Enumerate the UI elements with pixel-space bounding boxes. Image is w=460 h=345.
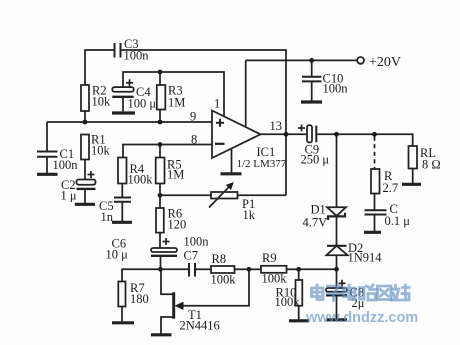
wire P1 to feedback column <box>238 194 287 196</box>
C1 label <box>53 147 79 172</box>
pin 13 label <box>270 119 283 133</box>
wire C10 top lead <box>311 60 313 76</box>
R2 label <box>92 84 112 109</box>
op-amp minus input symbol <box>215 143 225 145</box>
wire C to ground <box>374 215 376 232</box>
ground C8 <box>327 318 348 321</box>
IC1 label <box>237 145 287 170</box>
svg-text:1: 1 <box>214 97 220 111</box>
node R5 top junction <box>158 142 163 147</box>
svg-text:9: 9 <box>190 110 196 124</box>
svg-text:100k: 100k <box>275 295 301 309</box>
C5 label <box>99 199 114 224</box>
op-amp plus input symbol <box>216 119 224 127</box>
P1 label <box>242 197 256 222</box>
C8 label <box>350 286 365 311</box>
wire output pin 13 <box>261 133 307 135</box>
C6 plus sign <box>163 238 170 245</box>
+20V label <box>369 55 401 70</box>
capacitor C5 <box>114 198 131 202</box>
capacitor C1 <box>37 152 58 157</box>
C9 label <box>301 143 330 167</box>
wire op-amp ground pin <box>231 148 233 173</box>
ground C2 <box>75 203 95 206</box>
transistor T1 channel <box>172 292 175 319</box>
ground C <box>364 231 381 234</box>
wire R10 to ground <box>298 306 300 320</box>
node zobel dashed junction <box>372 132 377 137</box>
capacitor C7 <box>189 263 195 277</box>
wire node to R9 <box>249 268 261 270</box>
transistor T1 gate arrow <box>175 302 184 310</box>
node R10 top junction <box>296 267 301 272</box>
wire node right to C7 <box>161 268 189 270</box>
capacitor C6 electrolytic <box>151 248 177 256</box>
svg-text:100n: 100n <box>184 235 210 249</box>
wire R5 top lead <box>159 145 161 158</box>
resistor R8 <box>211 266 235 273</box>
svg-text:13: 13 <box>270 119 283 133</box>
svg-text:100n: 100n <box>53 158 79 172</box>
resistor R5 <box>156 158 165 184</box>
svg-text:10 μ: 10 μ <box>106 248 129 262</box>
svg-text:10k: 10k <box>92 95 112 109</box>
svg-text:0.1 μ: 0.1 μ <box>385 214 411 228</box>
capacitor C4 electrolytic <box>112 87 133 97</box>
wire D2 to bottom node <box>336 255 338 269</box>
C label <box>385 202 411 228</box>
svg-text:1k: 1k <box>243 208 256 222</box>
C10 label <box>323 72 349 96</box>
wire R10 node to D2/C8 node <box>299 268 337 270</box>
svg-text:D1: D1 <box>311 203 326 217</box>
svg-text:100k: 100k <box>211 273 237 287</box>
svg-text:R9: R9 <box>262 251 277 265</box>
capacitor C10 <box>302 77 322 82</box>
C4 label <box>128 85 157 111</box>
C7 labels <box>184 235 210 263</box>
wire inverting input line (pin 8) <box>123 145 212 158</box>
ground C10 <box>301 100 322 103</box>
svg-text:100n: 100n <box>323 82 349 96</box>
C8 plus sign <box>339 280 346 287</box>
wire C8 to ground <box>336 295 338 318</box>
wire C10 to ground <box>311 81 313 100</box>
node R3 bottom junction <box>158 120 163 125</box>
svg-text:1 μ: 1 μ <box>61 189 77 203</box>
pin 8 label <box>191 133 197 147</box>
wire R1 bottom to C2 <box>84 160 86 180</box>
pin 9 label <box>190 110 196 124</box>
wire feedback column down to P1 <box>285 134 287 195</box>
C6 label <box>106 237 129 262</box>
resistor R7 <box>118 282 125 307</box>
wire R6 bottom to C6 <box>159 233 161 248</box>
wire R3 bottom lead <box>159 110 161 123</box>
wire input line down to C1 <box>46 122 48 151</box>
capacitor C zobel <box>365 210 387 214</box>
wire feedback top line from R2 top to C3 <box>85 50 114 85</box>
D1 label <box>303 203 328 230</box>
ground T1 <box>151 333 172 336</box>
resistor R1 <box>81 135 89 160</box>
resistor R zobel <box>371 169 380 194</box>
node R5/R6/P1 junction <box>158 193 163 198</box>
capacitor C8 electrolytic <box>326 288 347 295</box>
svg-text:180: 180 <box>130 292 149 306</box>
ground RL <box>402 183 421 186</box>
svg-text:1N914: 1N914 <box>348 251 383 265</box>
svg-text:R8: R8 <box>212 252 227 266</box>
wire bias line from C4 top to pin 1 <box>123 72 224 116</box>
wire R4 bottom to C5 <box>121 184 123 197</box>
ground R7 <box>112 321 134 324</box>
wire RL to ground <box>412 169 414 184</box>
op-amp U1 triangle <box>212 111 261 159</box>
ground R10 <box>289 319 309 322</box>
svg-text:1/2 LM377: 1/2 LM377 <box>237 158 287 170</box>
svg-text:2N4416: 2N4416 <box>180 319 220 333</box>
resistor R4 <box>118 158 127 184</box>
R7 label <box>130 281 149 306</box>
wire op-amp power pin from supply <box>245 60 247 127</box>
svg-text:2.7: 2.7 <box>383 181 399 195</box>
node R8/R9/gate junction <box>247 267 252 272</box>
R4 label <box>128 162 154 187</box>
node output/feedback junction <box>284 132 289 137</box>
svg-text:IC1: IC1 <box>257 145 276 159</box>
wire feedback line C3 to output column <box>122 50 287 134</box>
wire C9 to RL corner <box>317 134 412 146</box>
wire dashed to zobel R <box>374 137 376 170</box>
svg-text:100 μ: 100 μ <box>128 97 157 111</box>
ground op-amp <box>221 172 242 175</box>
svg-text:1M: 1M <box>168 96 185 110</box>
svg-text:C7: C7 <box>184 249 199 263</box>
resistor R3 <box>157 85 166 110</box>
resistor R10 <box>296 269 303 305</box>
wire R to C <box>374 194 376 211</box>
C2 plus sign <box>88 171 95 178</box>
node C6/R7/C7/T1 junction <box>158 267 163 272</box>
svg-text:100k: 100k <box>262 272 288 286</box>
wire R5 bottom to node <box>159 184 161 196</box>
RL label <box>420 146 441 172</box>
svg-text:1M: 1M <box>167 168 184 182</box>
wire noninverting input line (pin 9) <box>47 121 212 123</box>
ground C4 <box>112 111 135 114</box>
svg-text:4.7V: 4.7V <box>303 216 328 230</box>
R6 label <box>168 207 187 232</box>
R3 label <box>168 84 185 110</box>
resistor RL <box>409 146 418 169</box>
C2 label <box>61 178 77 203</box>
node R2/R1 junction <box>83 120 88 125</box>
pin 1 label <box>214 97 220 111</box>
wire R7 to ground <box>121 307 123 322</box>
wire D1 to D2 <box>336 216 338 245</box>
svg-text:100k: 100k <box>128 173 154 187</box>
C3 value label <box>124 37 150 63</box>
node R3 top junction <box>158 70 163 75</box>
wire C2 to ground <box>84 189 86 203</box>
wire node to P1 <box>160 194 211 196</box>
svg-text:+20V: +20V <box>369 55 401 70</box>
C4 plus sign <box>126 79 133 86</box>
wire C7 to R8 <box>196 268 211 270</box>
wire R2 bottom to input line <box>84 111 86 122</box>
svg-text:8 Ω: 8 Ω <box>422 158 441 172</box>
wire C6 bottom to node <box>160 256 162 269</box>
wire node left to R7 <box>122 269 161 281</box>
wire C4 to ground <box>122 97 124 112</box>
wire T1 source <box>161 317 173 334</box>
watermark site name <box>312 285 410 301</box>
wire +20V supply line <box>246 59 358 61</box>
R5 label <box>167 158 184 182</box>
potentiometer P1 <box>209 182 238 208</box>
ground C1 <box>37 173 58 176</box>
wire C1 to ground <box>46 157 48 173</box>
svg-text:8: 8 <box>191 133 197 147</box>
ground C5 <box>112 221 132 224</box>
capacitor C3 <box>115 43 121 58</box>
diode D1 zener <box>327 207 346 220</box>
svg-text:250 μ: 250 μ <box>301 153 330 167</box>
diode D2 <box>326 246 347 255</box>
wire R8 to node <box>235 268 250 270</box>
resistor R2 <box>81 85 89 111</box>
resistor R6 <box>156 208 164 233</box>
wire D1 column down <box>336 134 338 207</box>
wire R3 top lead <box>159 72 161 85</box>
T1 label <box>180 308 220 333</box>
wire R6 top lead <box>159 195 161 208</box>
svg-text:120: 120 <box>168 218 187 232</box>
C9 plus sign <box>298 125 305 132</box>
R9 label <box>262 251 288 286</box>
capacitor C2 electrolytic <box>77 180 96 189</box>
R1 label <box>91 133 111 158</box>
R label <box>383 169 399 195</box>
svg-text:1n: 1n <box>101 210 114 224</box>
wire node to C8 <box>336 269 338 288</box>
terminal +20V <box>357 57 364 64</box>
capacitor C9 electrolytic <box>307 125 316 142</box>
wire T1 drain <box>161 269 173 294</box>
D2 label <box>348 241 383 265</box>
node D1 column junction <box>334 132 339 137</box>
svg-text:www.dndzz.com: www.dndzz.com <box>305 310 418 326</box>
node D2/C8 junction <box>334 267 339 272</box>
wire C5 to ground <box>121 202 123 221</box>
svg-text:10k: 10k <box>91 144 111 158</box>
wire gate feed down and left <box>183 269 249 306</box>
node C10 junction <box>309 58 314 63</box>
wire R9 to R10 node <box>287 268 299 270</box>
R10 label <box>275 286 301 310</box>
resistor R9 <box>261 266 287 273</box>
R8 label <box>211 252 237 287</box>
